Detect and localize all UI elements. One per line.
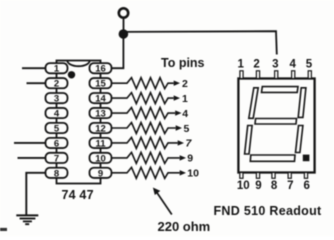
svg-text:To pins: To pins: [161, 56, 205, 70]
svg-text:1: 1: [237, 59, 244, 71]
svg-text:10: 10: [237, 180, 250, 192]
svg-text:3: 3: [54, 94, 59, 105]
svg-text:2: 2: [54, 79, 59, 90]
svg-text:2: 2: [253, 59, 259, 71]
svg-text:2: 2: [182, 78, 188, 90]
svg-text:5: 5: [184, 123, 190, 135]
svg-text:9: 9: [255, 180, 261, 192]
svg-text:11: 11: [95, 138, 106, 149]
svg-text:4: 4: [289, 59, 296, 71]
svg-text:3: 3: [272, 59, 278, 71]
svg-text:12: 12: [95, 123, 106, 134]
svg-text:9: 9: [187, 153, 193, 165]
svg-text:220 ohm: 220 ohm: [158, 219, 211, 234]
svg-text:74 47: 74 47: [61, 188, 93, 202]
svg-text:8: 8: [271, 180, 278, 192]
svg-text:1: 1: [54, 64, 60, 75]
svg-text:7: 7: [54, 153, 59, 164]
svg-text:4: 4: [54, 108, 60, 119]
svg-text:6: 6: [54, 138, 59, 149]
svg-text:10: 10: [95, 153, 106, 164]
svg-text:1: 1: [182, 93, 188, 105]
svg-text:8: 8: [54, 168, 59, 179]
svg-text:FND 510 Readout: FND 510 Readout: [214, 204, 323, 218]
svg-text:7: 7: [287, 180, 293, 192]
svg-text:9: 9: [98, 168, 103, 179]
svg-text:6: 6: [303, 180, 309, 192]
svg-text:15: 15: [95, 79, 106, 90]
svg-text:14: 14: [95, 94, 106, 105]
svg-text:10: 10: [187, 168, 199, 180]
svg-text:16: 16: [95, 64, 106, 75]
svg-text:13: 13: [95, 108, 106, 119]
svg-text:5: 5: [306, 59, 313, 71]
svg-text:4: 4: [182, 108, 188, 120]
svg-text:5: 5: [54, 123, 60, 134]
